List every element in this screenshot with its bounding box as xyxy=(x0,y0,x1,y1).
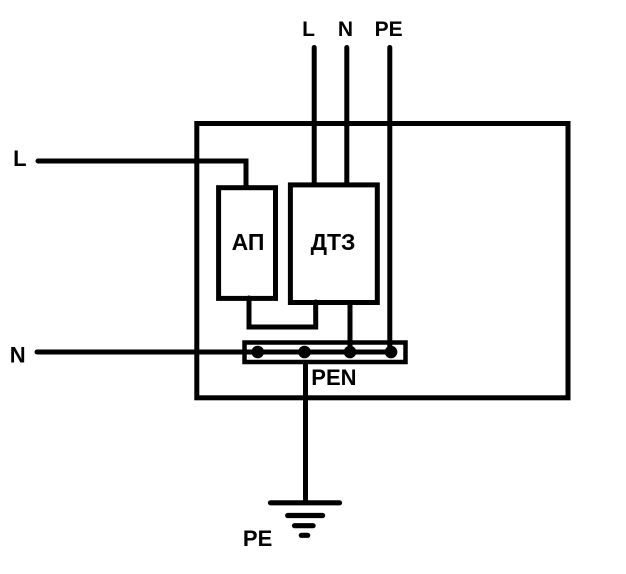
wire N input through PEN bus xyxy=(37,350,391,355)
junction node 3 (DTZ connection) xyxy=(344,346,357,359)
junction node 1 (N connection) xyxy=(251,346,264,359)
svg-text:АП: АП xyxy=(232,229,265,255)
circuit breaker AP (АП) xyxy=(219,188,276,299)
wire AP output to DTZ input xyxy=(249,298,316,327)
svg-text:PE: PE xyxy=(243,526,272,551)
wire N supply drop xyxy=(344,48,349,188)
ground symbol xyxy=(271,503,340,536)
wire L input to AP xyxy=(38,161,246,187)
junction node 4 (PE connection) xyxy=(385,346,398,359)
svg-text:ДТЗ: ДТЗ xyxy=(311,229,356,255)
svg-text:PEN: PEN xyxy=(311,365,356,390)
enclosure box xyxy=(197,124,568,398)
svg-text:L: L xyxy=(13,146,26,171)
PEN bus bar xyxy=(245,343,406,363)
junction node 2 (earth connection) xyxy=(298,346,311,359)
wire PEN bus to earth xyxy=(303,362,308,502)
wire L supply drop xyxy=(312,48,317,188)
wire PE supply drop xyxy=(387,48,392,353)
wire DTZ output to PEN bus xyxy=(348,302,353,352)
svg-text:N: N xyxy=(338,18,353,41)
residual current device DTZ (ДТЗ) xyxy=(290,185,377,303)
svg-text:PE: PE xyxy=(375,18,403,41)
svg-text:L: L xyxy=(302,18,315,41)
svg-text:N: N xyxy=(10,343,26,368)
